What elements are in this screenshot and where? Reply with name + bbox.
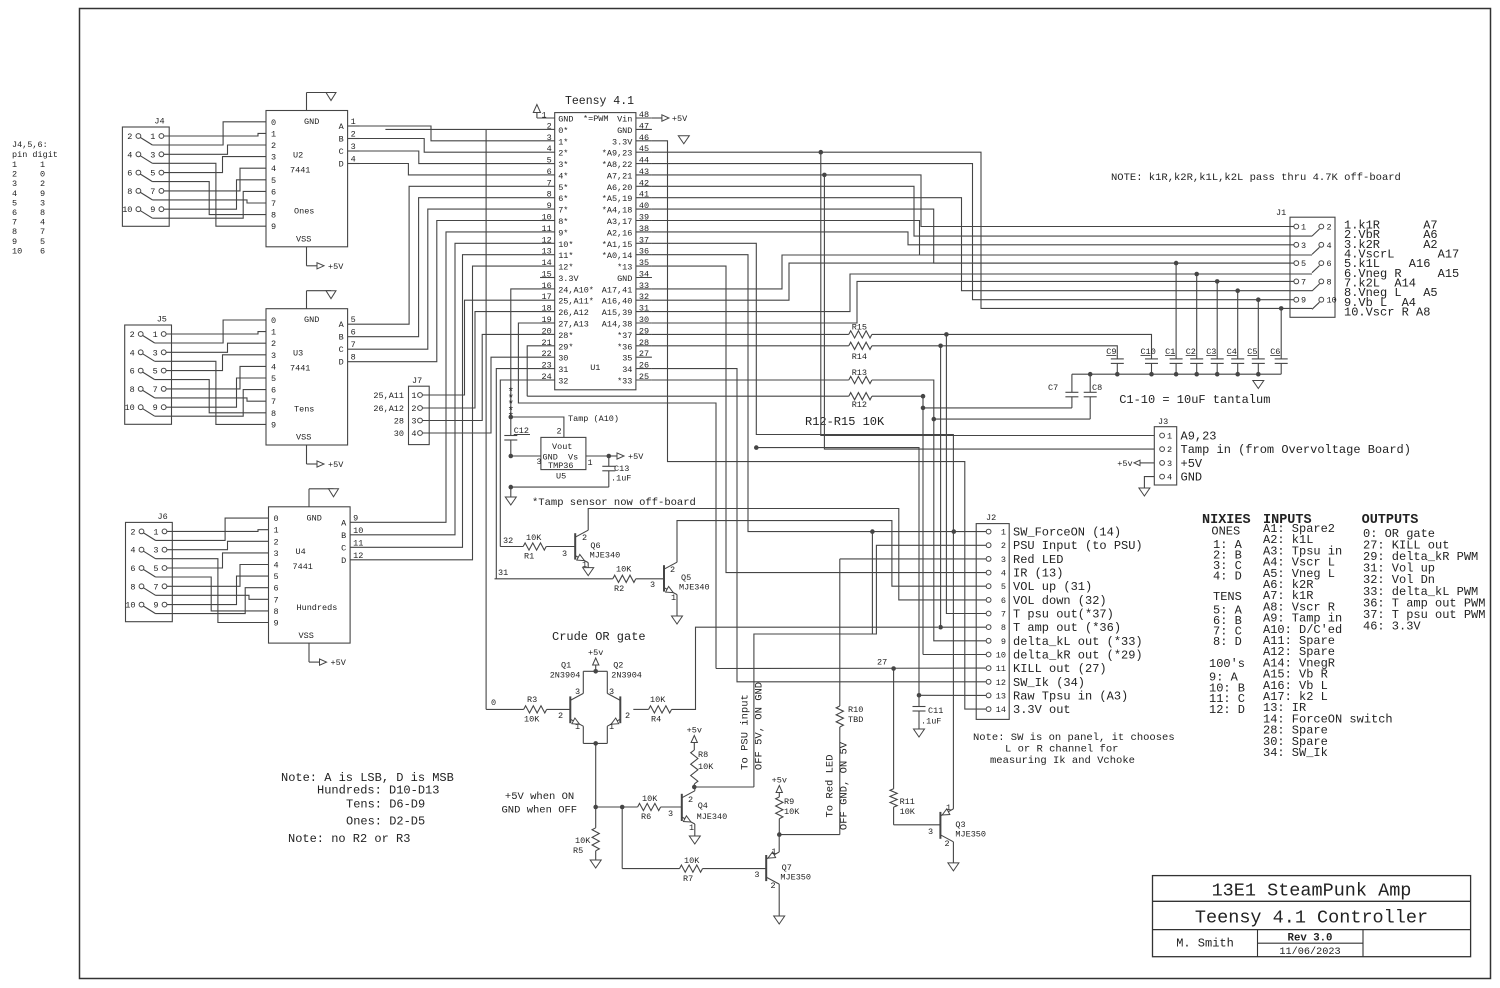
svg-text:C: C [339, 147, 344, 157]
svg-text:+5v: +5v [687, 726, 702, 736]
svg-text:5: 5 [271, 176, 276, 186]
svg-text:Vin: Vin [617, 115, 632, 125]
svg-text:7441: 7441 [290, 364, 310, 374]
connector J3 [1154, 417, 1411, 485]
svg-text:31: 31 [558, 365, 568, 375]
wire SW_ForceON branch down to PSU node [870, 529, 875, 634]
svg-text:2: 2 [271, 339, 276, 349]
svg-text:A: A [339, 320, 345, 330]
svg-text:0: 0 [40, 170, 45, 180]
transistor Q2 2N3904 [607, 661, 642, 733]
svg-text:3.3V out: 3.3V out [1013, 703, 1071, 717]
svg-text:8: 8 [130, 582, 135, 592]
svg-text:VSS: VSS [299, 631, 314, 641]
svg-text:D: D [339, 160, 344, 170]
wire net 25,A11 (pin17) down to J7 pin1 [422, 300, 540, 395]
svg-text:GND when OFF: GND when OFF [502, 805, 578, 817]
wires J5 to U3 [155, 320, 266, 424]
svg-text:46: 3.3V: 46: 3.3V [1363, 619, 1421, 633]
svg-text:12*: 12* [558, 263, 573, 273]
svg-text:*A8,22: *A8,22 [602, 160, 633, 170]
svg-text:3: 3 [562, 549, 567, 559]
svg-text:25,A11: 25,A11 [373, 391, 404, 401]
svg-text:3.3V: 3.3V [612, 137, 633, 147]
svg-text:1: 1 [1167, 432, 1172, 442]
svg-text:1: 1 [274, 526, 279, 536]
svg-text:2: 2 [945, 839, 950, 849]
svg-text:7: 7 [40, 227, 45, 237]
wire Tamp (A10) [509, 414, 620, 437]
7441 driver U4 (Hundreds) [269, 489, 351, 668]
wire OR output node [593, 805, 637, 810]
svg-text:4: 4 [12, 189, 17, 199]
7441 driver U3 (Tens) [266, 291, 348, 470]
svg-text:3*: 3* [558, 160, 568, 170]
svg-text:U2: U2 [293, 151, 303, 161]
svg-text:A9,23: A9,23 [1181, 430, 1217, 444]
svg-text:14: 14 [996, 705, 1006, 715]
svg-text:8*: 8* [558, 217, 568, 227]
wire C7 bus [923, 407, 1072, 409]
svg-text:NOTE: k1R,k2R,k1L,k2L pass thr: NOTE: k1R,k2R,k1L,k2L pass thru 4.7K off… [1111, 172, 1401, 184]
svg-text:6: 6 [12, 208, 17, 218]
svg-text:6: 6 [1001, 596, 1006, 606]
svg-text:R9: R9 [784, 797, 794, 807]
resistor R14 [652, 342, 1117, 362]
svg-text:C: C [341, 543, 346, 553]
svg-text:*13: *13 [617, 263, 632, 273]
Teensy pin 48 +5V [652, 117, 662, 119]
svg-text:Q3: Q3 [955, 820, 965, 830]
svg-text:MJE340: MJE340 [590, 551, 621, 561]
svg-text:11*: 11* [558, 251, 573, 261]
svg-text:measuring Ik and Vchoke: measuring Ik and Vchoke [990, 755, 1135, 767]
svg-text:9: 9 [153, 601, 158, 611]
svg-text:9: 9 [271, 222, 276, 232]
wire T psu out *37 riser to J2 pin7 [946, 335, 986, 613]
OUTPUTS table [1362, 513, 1486, 633]
svg-text:4: 4 [1327, 241, 1332, 251]
svg-text:+5V when ON: +5V when ON [505, 791, 574, 803]
svg-text:2: 2 [1167, 445, 1172, 455]
svg-text:1: 1 [771, 847, 776, 857]
svg-text:Vout: Vout [552, 442, 572, 452]
svg-text:Q4: Q4 [698, 801, 708, 811]
svg-text:10*: 10* [558, 240, 573, 250]
wire A14,38 (pin30) to J1 pin7 [652, 281, 1290, 323]
svg-text:35: 35 [622, 354, 632, 364]
svg-text:1: 1 [588, 458, 593, 468]
svg-text:7: 7 [271, 199, 276, 209]
svg-text:3: 3 [754, 870, 759, 880]
svg-text:Teensy 4.1: Teensy 4.1 [565, 95, 634, 108]
wires U2 outputs to Teensy pins 3-6 [348, 117, 540, 175]
svg-text:10: 10 [122, 205, 132, 215]
svg-text:3: 3 [40, 198, 45, 208]
svg-text:6: 6 [127, 169, 132, 179]
svg-text:9: 9 [12, 237, 17, 247]
wire net 32 (pin24) down to R1 [500, 380, 540, 547]
svg-text:5: 5 [1301, 259, 1306, 269]
svg-text:2: 2 [130, 527, 135, 537]
svg-text:A2,16: A2,16 [607, 228, 633, 238]
svg-text:VSS: VSS [296, 433, 311, 443]
svg-text:7: 7 [1001, 610, 1006, 620]
svg-text:2: 2 [271, 141, 276, 151]
wire net 26,A12 (pin18) down to J7 pin2 [422, 312, 540, 408]
ground at J3 pin4 [1139, 477, 1154, 496]
svg-text:2: 2 [558, 711, 563, 721]
connector J2 [976, 513, 1009, 719]
svg-text:27,A13: 27,A13 [558, 320, 589, 330]
svg-text:5*: 5* [558, 183, 568, 193]
resistor R6 [638, 794, 682, 822]
svg-text:A3,17: A3,17 [607, 217, 633, 227]
svg-text:D: D [339, 358, 344, 368]
capacitor C9 [1106, 347, 1124, 377]
svg-text:1: 1 [689, 823, 694, 833]
svg-text:1: 1 [946, 803, 951, 813]
svg-text:100's: 100's [1209, 657, 1245, 671]
svg-text:To Red LED: To Red LED [825, 754, 837, 817]
capacitor C2 [1186, 272, 1204, 377]
svg-text:28*: 28* [558, 331, 573, 341]
svg-text:Hundreds: Hundreds [297, 603, 338, 613]
svg-text:A: A [341, 518, 347, 528]
svg-text:3: 3 [153, 546, 158, 556]
svg-text:5: 5 [153, 564, 158, 574]
svg-text:26,A12: 26,A12 [373, 404, 404, 414]
svg-text:TMP36: TMP36 [548, 461, 574, 471]
svg-text:MJE350: MJE350 [955, 830, 986, 840]
svg-text:MJE340: MJE340 [697, 812, 728, 822]
svg-text:Q1: Q1 [561, 661, 571, 671]
svg-text:A15,39: A15,39 [602, 308, 633, 318]
svg-text:7: 7 [150, 187, 155, 197]
wire KILL out 27 to J2 pin11 [716, 658, 986, 671]
svg-text:+5v: +5v [772, 776, 787, 786]
svg-text:7*: 7* [558, 206, 568, 216]
svg-text:6: 6 [1327, 259, 1332, 269]
svg-text:1: 1 [150, 132, 155, 142]
svg-text:B: B [341, 531, 346, 541]
connector J1 [1276, 208, 1337, 317]
capacitor C6 [1270, 306, 1288, 374]
svg-text:.1uF: .1uF [611, 474, 631, 484]
svg-text:3: 3 [1301, 241, 1306, 251]
svg-text:A6,20: A6,20 [607, 183, 633, 193]
svg-text:7441: 7441 [290, 166, 310, 176]
svg-text:Q5: Q5 [681, 573, 691, 583]
wire net 29 (pin21) down to R12 [527, 346, 540, 396]
svg-text:OFF 5V, ON GND: OFF 5V, ON GND [754, 682, 766, 770]
wire OR gate collectors to +5v [583, 648, 607, 693]
transistor Q5 MJE340 [650, 562, 710, 624]
svg-text:0*: 0* [558, 126, 568, 136]
svg-text:1: 1 [153, 330, 158, 340]
svg-text:GND: GND [617, 274, 632, 284]
+5V at J3 pin3 [1117, 459, 1154, 469]
connector J7 [373, 376, 429, 445]
wire T amp out *36 riser to J2 pin8 [941, 346, 986, 627]
svg-text:9: 9 [1301, 296, 1306, 306]
title block [1153, 876, 1471, 958]
svg-text:.1uF: .1uF [921, 717, 941, 727]
svg-text:*33: *33 [617, 377, 632, 387]
svg-text:*A5,19: *A5,19 [602, 194, 633, 204]
svg-text:10: 10 [1327, 296, 1337, 306]
svg-text:2: 2 [1327, 223, 1332, 233]
svg-text:4: 4 [40, 218, 45, 228]
wire net 31 (pin23) down to R2 [496, 369, 540, 579]
resistor R8 [687, 726, 715, 788]
svg-text:10K: 10K [900, 807, 916, 817]
svg-text:B: B [339, 135, 344, 145]
svg-text:5: 5 [12, 198, 17, 208]
svg-text:Raw Tpsu in (A3): Raw Tpsu in (A3) [1013, 689, 1128, 703]
svg-text:+5V: +5V [672, 114, 688, 124]
resistor R5 [573, 807, 601, 868]
svg-text:ONES: ONES [1211, 525, 1240, 539]
svg-text:TBD: TBD [848, 715, 863, 725]
svg-text:1*: 1* [558, 137, 568, 147]
svg-text:1: 1 [1301, 223, 1306, 233]
svg-text:delta_kR out (*29): delta_kR out (*29) [1013, 649, 1143, 663]
svg-text:Hundreds: D10-D13: Hundreds: D10-D13 [317, 784, 439, 798]
svg-text:10K: 10K [524, 715, 540, 725]
wire A17,41 (pin33) to J1 pin4 [652, 255, 1312, 289]
resistor R9 [772, 776, 801, 835]
svg-text:C7: C7 [1048, 383, 1058, 393]
transistor Q6 MJE340 [562, 530, 620, 575]
svg-text:27: 27 [877, 658, 887, 668]
svg-text:R12: R12 [852, 400, 867, 410]
svg-text:3: 3 [575, 687, 580, 697]
svg-text:M. Smith: M. Smith [1176, 937, 1234, 951]
INPUTS table [1263, 513, 1393, 760]
svg-text:8: 8 [271, 409, 276, 419]
wire A9,23 to J3 pin1 [821, 152, 1155, 435]
capacitor bus line [1072, 373, 1281, 375]
svg-text:32: 32 [558, 377, 568, 387]
svg-text:6: 6 [130, 367, 135, 377]
svg-text:0: 0 [271, 316, 276, 326]
svg-text:3: 3 [274, 549, 279, 559]
svg-text:A14,38: A14,38 [602, 320, 633, 330]
wire 3.3V (pin46) to J2 pin14 3.3V out [652, 141, 986, 709]
wires U4 outputs to Teensy pins 11-14 [350, 232, 540, 561]
svg-text:34: 34 [622, 365, 632, 375]
svg-text:TENS: TENS [1213, 590, 1242, 604]
7441 driver U2 (Ones) [266, 93, 348, 272]
svg-text:11: 11 [996, 664, 1006, 674]
svg-text:12: 12 [996, 678, 1006, 688]
svg-text:8: 8 [130, 385, 135, 395]
svg-text:+5v: +5v [1117, 459, 1132, 469]
svg-text:T amp out (*36): T amp out (*36) [1013, 621, 1121, 635]
svg-text:11/06/2023: 11/06/2023 [1279, 946, 1340, 958]
svg-text:10K: 10K [784, 807, 800, 817]
note A is LSB [281, 771, 454, 846]
NIXIES table [1202, 513, 1251, 717]
svg-text:*A1,15: *A1,15 [602, 240, 633, 250]
svg-text:2N3904: 2N3904 [550, 671, 581, 681]
svg-text:1: 1 [271, 129, 276, 139]
connector J4 [122, 117, 169, 227]
wire TMP36 GND pin3 [509, 454, 541, 459]
svg-text:+5V: +5V [328, 460, 344, 470]
svg-text:C11: C11 [928, 706, 943, 716]
svg-text:0: 0 [491, 698, 496, 708]
svg-text:4: 4 [130, 546, 135, 556]
wire *A1,15 (pin37) to Q3 emitter [652, 243, 954, 434]
svg-text:C8: C8 [1092, 383, 1102, 393]
svg-text:10: 10 [996, 651, 1006, 661]
svg-text:10K: 10K [650, 695, 666, 705]
transistor Q7 MJE350 [754, 847, 811, 924]
resistor R10 [836, 559, 863, 835]
svg-text:KILL out (27): KILL out (27) [1013, 662, 1107, 676]
svg-text:3: 3 [271, 153, 276, 163]
svg-text:C13: C13 [614, 464, 629, 474]
svg-text:10K: 10K [642, 794, 658, 804]
svg-text:10K: 10K [575, 836, 591, 846]
svg-text:8: 8 [40, 208, 45, 218]
svg-text:8: 8 [127, 187, 132, 197]
temp sensor U5 TMP36 [537, 427, 593, 482]
transistor Q4 MJE340 [668, 791, 727, 844]
capacitor C7 [1048, 374, 1078, 408]
svg-text:U5: U5 [556, 472, 566, 482]
connector J5 [124, 315, 171, 425]
svg-text:2: 2 [411, 404, 416, 414]
svg-text:3: 3 [537, 457, 542, 467]
svg-text:8: 8 [1327, 277, 1332, 287]
svg-text:3: 3 [668, 809, 673, 819]
svg-text:*Tamp sensor now off-board: *Tamp sensor now off-board [532, 497, 696, 509]
svg-text:IR (13): IR (13) [1013, 567, 1063, 581]
svg-text:1: 1 [542, 111, 547, 121]
svg-text:C1-10 = 10uF tantalum: C1-10 = 10uF tantalum [1119, 393, 1270, 407]
svg-text:2: 2 [625, 711, 630, 721]
svg-text:Note: no R2 or R3: Note: no R2 or R3 [288, 832, 410, 846]
resistor R3 [486, 695, 570, 725]
svg-text:J2: J2 [986, 513, 996, 523]
svg-text:1: 1 [1001, 528, 1006, 538]
svg-text:2: 2 [688, 795, 693, 805]
svg-text:MJE350: MJE350 [780, 873, 811, 883]
wire Tamp in to J3 pin2 [824, 175, 1154, 449]
capacitor C12 [504, 417, 530, 456]
svg-text:To PSU input: To PSU input [740, 694, 752, 770]
wire A16,40 (pin32) to J1 pin5 [652, 263, 1290, 300]
svg-text:3: 3 [12, 179, 17, 189]
svg-text:R7: R7 [683, 874, 693, 884]
svg-text:R12-R15 10K: R12-R15 10K [805, 415, 885, 429]
svg-text:*37: *37 [617, 331, 632, 341]
svg-text:4: 4 [271, 362, 276, 372]
ground below C12 [505, 497, 516, 505]
svg-text:8: D: 8: D [1213, 635, 1242, 649]
wire Red LED to J2 pin3 [840, 558, 986, 560]
note SW is on panel [973, 732, 1175, 767]
svg-text:R10: R10 [848, 705, 863, 715]
capacitor C8 [1084, 372, 1103, 419]
svg-text:2: 2 [557, 427, 562, 437]
svg-text:GND: GND [304, 117, 319, 127]
svg-text:10K: 10K [616, 565, 632, 575]
svg-text:J4: J4 [154, 117, 164, 127]
svg-text:4: 4 [127, 150, 132, 160]
svg-text:A17,41: A17,41 [602, 285, 633, 295]
capacitor C1 [1165, 261, 1183, 377]
svg-text:L or R channel for: L or R channel for [1005, 744, 1118, 756]
svg-text:*A4,18: *A4,18 [602, 206, 633, 216]
svg-text:Crude OR gate: Crude OR gate [552, 630, 646, 644]
svg-text:7: 7 [1301, 277, 1306, 287]
svg-text:10K: 10K [698, 762, 714, 772]
resistor R1 [500, 533, 575, 562]
svg-text:delta_kL out (*33): delta_kL out (*33) [1013, 635, 1143, 649]
wire A15,39 (pin31) to J1 pin6 [652, 274, 1312, 312]
svg-text:7: 7 [271, 397, 276, 407]
svg-text:30: 30 [394, 429, 404, 439]
svg-text:D: D [341, 556, 346, 566]
wire Raw Tpsu in (A3) to J2 pin13 [754, 445, 986, 695]
svg-text:OFF GND, ON 5V: OFF GND, ON 5V [839, 741, 851, 830]
wire net 27,A13 (pin19) KILL out 27 [518, 323, 716, 669]
svg-text:9*: 9* [558, 228, 568, 238]
wire C12 to C13 bottom [509, 485, 609, 497]
svg-text:Q7: Q7 [782, 863, 792, 873]
svg-text:31: 31 [498, 568, 508, 578]
svg-text:4: 4 [1167, 473, 1172, 483]
svg-text:7: 7 [153, 385, 158, 395]
svg-text:J6: J6 [158, 512, 168, 522]
svg-text:7: 7 [274, 595, 279, 605]
svg-text:25,A11*: 25,A11* [558, 297, 594, 307]
svg-text:Tamp in (from Overvoltage Boar: Tamp in (from Overvoltage Board) [1181, 443, 1411, 457]
svg-text:*A9,23: *A9,23 [602, 149, 633, 159]
svg-text:1: 1 [609, 722, 614, 732]
svg-text:28: 28 [394, 417, 404, 427]
svg-text:Teensy 4.1 Controller: Teensy 4.1 Controller [1195, 908, 1428, 929]
svg-text:3: 3 [150, 150, 155, 160]
svg-text:2: 2 [130, 330, 135, 340]
capacitor C11 [913, 693, 944, 737]
svg-text:32: 32 [503, 536, 513, 546]
svg-text:8: 8 [12, 227, 17, 237]
svg-text:6: 6 [274, 584, 279, 594]
svg-text:Tens: D6-D9: Tens: D6-D9 [346, 798, 425, 812]
note pin-digit table for J4,J5,J6 [12, 140, 58, 256]
svg-text:B: B [339, 333, 344, 343]
svg-text:5: 5 [40, 237, 45, 247]
svg-text:R6: R6 [641, 812, 651, 822]
svg-text:Q6: Q6 [590, 541, 600, 551]
off-board net asterisks [507, 387, 514, 424]
wire pin34 GND stub [636, 277, 652, 279]
svg-text:4: 4 [1001, 569, 1006, 579]
svg-text:+5V: +5V [628, 452, 644, 462]
wires Teensy pins 45-38 staircase to J1 [652, 152, 1312, 308]
svg-text:+5V: +5V [1181, 457, 1203, 471]
svg-text:6: 6 [130, 564, 135, 574]
svg-text:Red LED: Red LED [1013, 553, 1063, 567]
svg-text:R15: R15 [852, 322, 867, 332]
svg-text:10: 10 [125, 601, 135, 611]
svg-text:GND: GND [558, 115, 573, 125]
